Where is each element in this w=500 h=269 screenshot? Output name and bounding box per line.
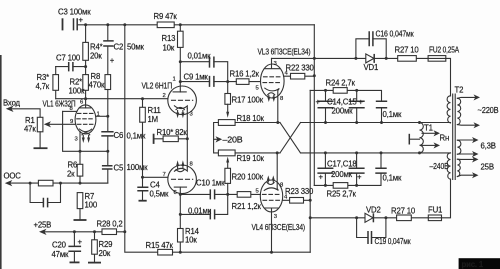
VL3 cathode arc pin8 [265, 88, 280, 122]
svg-text:C10 1мк: C10 1мк [196, 179, 225, 188]
capacitor C10 1mk [196, 179, 225, 200]
svg-text:200мк: 200мк [332, 107, 354, 116]
resistor R7 100 [77, 192, 98, 219]
svg-text:VD2: VD2 [366, 206, 381, 215]
node: lower line cap junctions [324, 151, 327, 154]
svg-text:VD1: VD1 [364, 63, 379, 72]
svg-text:C2: C2 [114, 43, 124, 52]
resistor R4* 20k [83, 42, 103, 60]
potentiometer R18 10k [218, 114, 264, 125]
tube VL2a 6N1P (triode half) [142, 77, 197, 119]
T1 output taps to Rn [422, 130, 449, 148]
svg-text:0,5мк: 0,5мк [150, 190, 169, 199]
wire: VD1 supply line y=58.4 [272, 58, 451, 95]
svg-text:R16 1,2к: R16 1,2к [230, 70, 260, 79]
svg-text:47к: 47к [24, 125, 36, 134]
svg-text:47мк: 47мк [52, 250, 69, 259]
svg-text:+: + [357, 173, 362, 182]
resistor R21 1,2k [232, 192, 262, 211]
svg-text:10к: 10к [163, 44, 175, 53]
node: anode/0.01 junction [179, 60, 182, 63]
VL4 cathode arc pin8 [264, 153, 278, 191]
node: R4/R2/C7 junction [84, 65, 87, 68]
resistor R3* 4,7k [36, 67, 59, 99]
svg-text:R6: R6 [68, 161, 78, 170]
svg-text:C9 1мк: C9 1мк [184, 73, 209, 82]
svg-text:R2*: R2* [70, 78, 83, 87]
tube VL2b 6N1P (triode half, inverted) [163, 160, 197, 196]
svg-text:–20В: –20В [223, 136, 243, 145]
svg-text:470к: 470к [89, 81, 105, 90]
resistor R8 470k [89, 72, 111, 132]
svg-text:R9 47к: R9 47к [154, 12, 178, 21]
svg-text:2: 2 [163, 93, 166, 99]
svg-text:Rн: Rн [440, 134, 450, 143]
svg-text:R17 100к: R17 100к [232, 96, 264, 105]
wire: crossover diagonals [280, 123, 301, 153]
svg-text:R27 10: R27 10 [391, 207, 416, 216]
capacitor C7 100 [56, 54, 86, 72]
svg-text:+: + [359, 98, 364, 107]
resistor R27 10 (upper) [395, 46, 420, 62]
svg-text:25В: 25В [481, 163, 494, 172]
VL1 heater arcs and arrows [82, 133, 90, 135]
VL2a grid dash pin2 [172, 99, 193, 101]
T2 mains winding ~220V [457, 94, 498, 128]
wire: VL2a anode lead [179, 62, 181, 92]
svg-text:R10* 82к: R10* 82к [157, 128, 188, 137]
wire: upper output line (R18 to T1 top) with cross-swap [235, 122, 450, 124]
wire: R1 wiper to VL1 grid pin9 [49, 123, 76, 125]
capacitor OOC (unlabeled) [30, 183, 60, 207]
svg-text:R22 330: R22 330 [286, 64, 315, 73]
svg-text:0,1мк: 0,1мк [127, 132, 146, 141]
VL3 anode bar pin3 [265, 58, 280, 68]
node: upper line cap junctions [324, 121, 327, 124]
capacitor C16 0,047mk [356, 30, 414, 59]
wire: lower output line (R19 to T1 bottom) with cross-swap [235, 152, 450, 154]
resistor R16 1,2k [228, 70, 261, 85]
svg-text:FU2 0,25А: FU2 0,25А [429, 46, 460, 55]
T2 winding 6,3V [457, 137, 495, 157]
node: VL1 cathode-box / column [106, 150, 109, 153]
input label and arrow [3, 99, 40, 118]
ground below R1 [34, 147, 48, 149]
svg-text:C3 100мк: C3 100мк [58, 8, 91, 17]
VL4 anode bar pin3 [264, 208, 278, 252]
node: bottom rail junctions [179, 251, 182, 254]
svg-text:C5: C5 [114, 164, 124, 173]
svg-text:–240В: –240В [430, 162, 449, 171]
figure caption plate [459, 258, 500, 269]
T2 winding 25V [457, 156, 493, 178]
svg-text:C7 100: C7 100 [56, 54, 81, 63]
transformer T2 core [453, 86, 464, 180]
wire: VL1 anode to VL2a grid line y=98.7 [56, 98, 168, 100]
wire: R14 column [179, 194, 181, 252]
VL2a heater [176, 107, 184, 109]
resistor R23 330 [283, 187, 314, 203]
T2 primary winding lower (-240V, to FU1) [447, 153, 450, 179]
VL3 g1 dash pin5 [263, 82, 282, 84]
capacitor 0,1mk (upper) [376, 101, 402, 122]
svg-text:VL4 6ПЗСЕ(EL34): VL4 6ПЗСЕ(EL34) [252, 223, 306, 232]
svg-text:6,3В: 6,3В [481, 142, 496, 151]
wire: top supply rail y=24.8 [78, 24, 315, 26]
tube VL3 6P3SE(EL34) [256, 48, 311, 123]
svg-text:+: + [110, 56, 115, 65]
fuse FU2 0,25A [428, 46, 460, 62]
VL4 heater [267, 183, 274, 185]
VL2b grid dash pin7 [172, 178, 193, 180]
resistor R22 330 [284, 64, 315, 80]
ground below R7 [74, 219, 87, 221]
wire: R18/R19 left vertical [214, 123, 219, 153]
wire: long vertical +25V feed x=124.8 [125, 25, 310, 252]
capacitor 0,1mk (lower) [375, 153, 402, 183]
svg-text:200мк: 200мк [331, 170, 353, 179]
capacitor 0,01mk (upper) [180, 52, 227, 82]
capacitor C9 1mk [180, 73, 227, 87]
svg-text:C19 0,047мк: C19 0,047мк [375, 237, 412, 246]
VL1 pin8 wire [63, 110, 77, 112]
capacitor C20 47mk [52, 232, 83, 262]
svg-text:R3*: R3* [37, 73, 50, 82]
VL1 anode bar pin6 [79, 107, 91, 109]
wire: common cathode line VL2 [186, 109, 188, 168]
svg-text:20к: 20к [90, 52, 102, 61]
resistor R28 0,2 [97, 220, 123, 235]
capacitor C15 200mk [327, 90, 365, 122]
VL3 g2 dash pin4 [264, 76, 282, 78]
node: C9/R16/R17 junction [226, 80, 229, 83]
resistor R29 20k [92, 232, 113, 262]
capacitor C6 0,1mk [101, 131, 146, 166]
resistor R2* 100k [69, 75, 89, 96]
svg-text:0,1мк: 0,1мк [383, 174, 402, 183]
VL2b cathode arc pin8 [174, 167, 187, 171]
svg-text:C14,C15: C14,C15 [327, 98, 357, 107]
node: R25 line junctions [324, 184, 327, 187]
trimmer arrow R20 to R19 [227, 162, 229, 169]
ground below C20 [70, 261, 80, 263]
svg-text:R25 2,7к: R25 2,7к [327, 190, 357, 199]
VL4 g2 dash pin4 [263, 199, 280, 201]
wire: VD2 supply line y=217.8 [310, 179, 450, 218]
svg-text:R24 2,7к: R24 2,7к [326, 79, 356, 88]
svg-text:0,01мк: 0,01мк [188, 52, 212, 61]
VL2a cathode arc pin3 [174, 106, 187, 109]
resistor OOC (unlabeled) [38, 180, 53, 186]
svg-text:0,01мк: 0,01мк [188, 207, 212, 216]
resistor R27 10 (lower) [391, 207, 416, 221]
capacitor C19 0,047mk [357, 218, 412, 246]
svg-text:Вход: Вход [3, 99, 21, 108]
svg-text:R13: R13 [162, 34, 176, 43]
wire: vertical A (VL4 anode net) [309, 90, 311, 252]
tube VL1 6Zh32P [43, 99, 100, 151]
svg-text:9: 9 [70, 119, 73, 125]
resistor R9 47k [154, 12, 178, 28]
resistor R20 100k [225, 168, 264, 194]
svg-text:T2: T2 [455, 86, 464, 95]
capacitor C5 100mk [80, 163, 148, 183]
svg-text:R28 0,2: R28 0,2 [97, 220, 123, 229]
svg-text:R29: R29 [99, 240, 113, 249]
svg-text:R21 1,2к: R21 1,2к [232, 202, 262, 211]
svg-text:+25В: +25В [34, 221, 52, 230]
resistor R13 10k [162, 25, 184, 62]
wire: VL1 screen box (pin8 to cathode bus) [63, 111, 108, 151]
scan page edge bar [0, 55, 2, 269]
resistor R10* 82k [154, 128, 188, 144]
wire: VL1 anode column x=85.6 [85, 25, 87, 108]
resistor R6 2k [67, 151, 83, 183]
svg-text:100мк: 100мк [127, 163, 149, 172]
svg-text:+: + [78, 238, 83, 247]
diode VD2 [365, 206, 381, 223]
svg-text:+: + [316, 98, 321, 107]
VL4 g1 dash pin5 [263, 193, 281, 195]
wire: VL1 pin1 to column [96, 115, 108, 117]
svg-text:C20: C20 [52, 241, 67, 250]
VL2b heater [176, 170, 184, 172]
svg-text:2к: 2к [67, 170, 75, 179]
resistor R14 10k [178, 227, 200, 245]
capacitor C4 0,5mk [137, 177, 169, 200]
svg-text:R18 10к: R18 10к [237, 114, 265, 123]
wire: VL2b anode line y=194.4 [180, 193, 260, 195]
potentiometer R1 47k [24, 116, 43, 148]
svg-text:R15 47к: R15 47к [146, 241, 174, 250]
node: OOC line junctions [29, 182, 32, 185]
svg-text:C6: C6 [114, 131, 124, 140]
VL3 heater [268, 93, 275, 95]
ground below R29 [88, 262, 101, 264]
svg-text:R11: R11 [148, 106, 161, 115]
VL1 cathode arc pin3 [79, 129, 91, 132]
resistor R25 2,7k and filter line [314, 173, 381, 198]
svg-text:VL3 6П3СЕ(EL34): VL3 6П3СЕ(EL34) [258, 48, 311, 57]
svg-text:10к: 10к [185, 236, 197, 245]
svg-text:+: + [79, 16, 84, 25]
svg-text:R20 100к: R20 100к [232, 173, 264, 182]
svg-text:20к: 20к [99, 249, 111, 258]
T2 primary winding upper (from FU2) [447, 96, 450, 123]
capacitor C2 50mk [103, 25, 144, 75]
resistor R24 2,7k and filter line [310, 79, 381, 102]
capacitor C3 100mk [58, 8, 91, 31]
svg-text:ООС: ООС [4, 172, 22, 181]
VL2a anode bar pin1 [173, 91, 186, 93]
svg-text:C16 0,047мк: C16 0,047мк [376, 30, 415, 39]
node: +25V line junctions [73, 230, 76, 233]
node: R24 line junctions [324, 89, 327, 92]
resistor R17 100k [225, 82, 264, 105]
svg-text:+: + [319, 173, 324, 182]
VL1 grid dashes [78, 112, 94, 114]
svg-text:1: 1 [97, 111, 100, 117]
resistor R15 47k [146, 241, 174, 255]
trimmer arrow R17 to R18 [227, 104, 229, 113]
node: C10/R20/R21 junction [226, 193, 229, 196]
svg-text:50мк: 50мк [127, 43, 144, 52]
svg-text:R4*: R4* [90, 43, 103, 52]
+25V label and arrow [34, 221, 125, 236]
svg-text:R19 10к: R19 10к [237, 154, 265, 163]
diode VD1 [364, 54, 379, 72]
svg-text:~220В: ~220В [478, 106, 499, 115]
node: rail junctions [84, 23, 87, 26]
-20V tap arrow [214, 136, 243, 145]
OOC feedback label and arrow [4, 172, 108, 187]
T1 core bar [408, 134, 410, 145]
svg-text:1: 1 [173, 77, 176, 83]
fuse FU1 [428, 206, 442, 221]
svg-text:100к: 100к [69, 87, 85, 96]
node: VL1 pin1 junction [106, 115, 109, 118]
resistor R11 1M [140, 97, 161, 177]
svg-text:1М: 1М [148, 115, 158, 124]
svg-text:FU1: FU1 [428, 206, 442, 215]
VL2b anode bar pin6 [174, 186, 186, 188]
svg-text:VL2 6Н1П: VL2 6Н1П [142, 82, 173, 91]
wire: VL2b grid line [143, 176, 168, 178]
capacitor C18 200mk [327, 153, 365, 186]
ground below C4 [139, 200, 147, 202]
transformer T1 winding [418, 121, 433, 154]
svg-text:T1: T1 [424, 124, 433, 133]
tube VL4 6P3SE(EL34) inverted [252, 153, 306, 252]
svg-text:рис. 1: рис. 1 [462, 260, 484, 269]
svg-text:C4: C4 [150, 181, 160, 190]
capacitor C17 200mk [317, 153, 333, 186]
svg-text:C17,C18: C17,C18 [327, 160, 357, 169]
svg-text:100: 100 [85, 201, 98, 210]
wire: vertical B (VL3 anode net, from rail) [313, 25, 315, 186]
svg-text:4,7к: 4,7к [36, 82, 50, 91]
capacitor 0,01mk (lower) [180, 194, 227, 219]
svg-text:0,1мк: 0,1мк [383, 110, 402, 119]
potentiometer R19 10k [218, 150, 264, 163]
capacitor C14 200mk [316, 90, 334, 122]
svg-text:R27 10: R27 10 [395, 46, 420, 55]
